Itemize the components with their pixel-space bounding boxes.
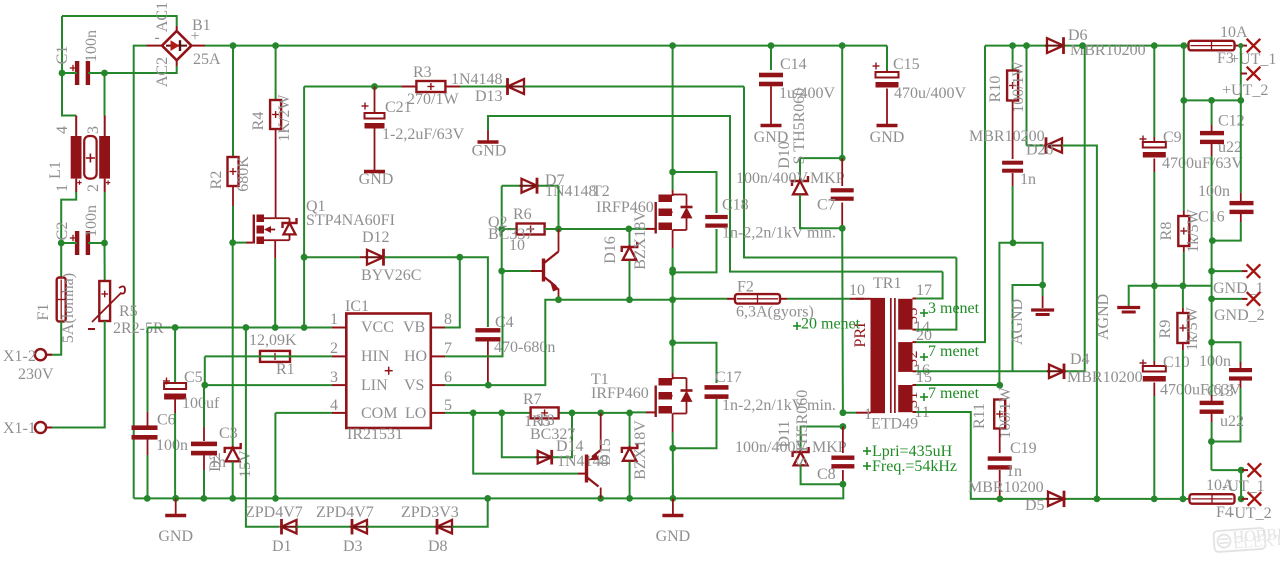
resistor R2 [232, 46, 234, 157]
svg-text:F1: F1 [35, 304, 52, 321]
svg-text:R5: R5 [119, 303, 138, 320]
diode D7 [502, 185, 520, 187]
svg-text:6: 6 [444, 369, 452, 386]
diode D5 [1048, 492, 1064, 506]
varistor R5 [104, 243, 106, 281]
svg-text:C9: C9 [1163, 129, 1182, 146]
capacitor C2 [75, 231, 79, 255]
wire C4 top [460, 257, 488, 327]
svg-text:8: 8 [444, 311, 452, 328]
svg-text:100n: 100n [83, 205, 100, 237]
label Lpri [863, 450, 871, 452]
ground GND C15 [877, 124, 898, 127]
node VCC join [301, 324, 308, 331]
svg-text:D1: D1 [272, 538, 292, 555]
node R9 rail [1180, 496, 1187, 503]
capacitor C9 [1153, 46, 1155, 137]
svg-text:HIN: HIN [361, 348, 390, 365]
svg-text:1n-2,2n/1kV min.: 1n-2,2n/1kV min. [722, 225, 836, 242]
svg-text:1: 1 [330, 311, 338, 328]
inductor L1 [71, 136, 82, 179]
diode D4 [1049, 370, 1064, 372]
wire B1 minus [147, 45, 162, 47]
svg-text:C19: C19 [1010, 440, 1037, 457]
capacitor C17 [673, 343, 717, 383]
connector GND_1 [1247, 264, 1261, 278]
label 7 menet b [920, 396, 928, 398]
node C4 vs [485, 382, 492, 389]
node snubber bot [839, 225, 846, 232]
wire HO up [501, 229, 503, 271]
svg-text:B1: B1 [192, 17, 211, 34]
zener D8 [437, 520, 452, 534]
svg-text:HO: HO [404, 348, 427, 365]
svg-text:T2: T2 [592, 183, 610, 200]
svg-text:GND: GND [359, 171, 394, 188]
svg-text:1: 1 [54, 184, 71, 192]
wire L1 pin2 down [104, 179, 106, 192]
svg-text:ETD49: ETD49 [871, 416, 918, 433]
ground GND mid [672, 498, 674, 514]
resistor R10 [1012, 46, 1014, 71]
pin 1 VCC [332, 327, 346, 329]
resistor R6 [502, 228, 517, 230]
svg-text:GND: GND [158, 528, 193, 545]
wire HIN row [205, 355, 332, 357]
resistor R1 [260, 351, 290, 362]
wire LO row [445, 412, 630, 414]
svg-text:1k/5W: 1k/5W [1184, 306, 1201, 350]
svg-text:VCC: VCC [361, 319, 394, 336]
node C13 tap [1208, 339, 1215, 346]
wire GND1 [1212, 270, 1242, 272]
svg-text:AC2: AC2 [154, 57, 171, 87]
svg-text:AC1: AC1 [154, 2, 171, 32]
node D14 left [498, 410, 505, 417]
svg-text:7 menet: 7 menet [928, 343, 980, 360]
svg-text:IC1: IC1 [345, 298, 369, 315]
svg-text:1N4148: 1N4148 [451, 71, 503, 88]
connector +UT_1 [1247, 39, 1261, 53]
wire -UT1 link [1240, 470, 1242, 499]
bridge rectifier B1 [162, 31, 191, 60]
node chain rail [484, 495, 491, 502]
wire LIN row [205, 384, 332, 386]
svg-text:C8: C8 [817, 466, 836, 483]
svg-text:100n/400V: 100n/400V [736, 170, 808, 187]
wire snubber down [841, 228, 844, 412]
svg-text:10: 10 [849, 282, 865, 299]
svg-text:D5: D5 [1025, 497, 1045, 514]
node C16 join [1209, 237, 1216, 244]
wire T2 source [672, 248, 674, 270]
svg-text:25A: 25A [193, 51, 221, 68]
svg-text:C6: C6 [157, 412, 176, 429]
wire pin17 [913, 298, 917, 300]
node R4 top [272, 42, 279, 49]
wire -UT1 row [1211, 469, 1242, 471]
svg-text:17: 17 [916, 282, 932, 299]
svg-text:ZPD4V7: ZPD4V7 [245, 504, 303, 521]
fuse F3 [1189, 41, 1235, 51]
svg-text:230V: 230V [18, 366, 54, 383]
svg-text:R10: R10 [987, 76, 1004, 103]
node T3 base tap [470, 410, 477, 417]
capacitor C16 [1240, 100, 1242, 193]
svg-text:7: 7 [444, 340, 452, 357]
wire aux return [744, 87, 956, 258]
svg-text:100n: 100n [83, 30, 100, 62]
capacitor C7 [841, 158, 843, 186]
svg-text:100uf: 100uf [182, 395, 220, 412]
node C9 bot [1151, 282, 1158, 289]
zener D11 [801, 427, 843, 452]
wire UT2 row [1183, 46, 1185, 101]
wire left AC1 branch [61, 16, 63, 73]
wire VB [445, 257, 460, 327]
wire gnd column [1211, 241, 1213, 343]
wire zener chain drop [246, 498, 279, 526]
node UT2 branch [1180, 42, 1187, 49]
diode D20 [1026, 46, 1028, 146]
wire VCC row [147, 328, 149, 412]
node C19 rail [997, 496, 1004, 503]
resistor R7 [531, 407, 559, 418]
svg-text:D8: D8 [428, 538, 448, 555]
wire gate stub Q1 [233, 242, 246, 244]
svg-text:BYV26C: BYV26C [361, 267, 421, 284]
svg-text:D4: D4 [1070, 351, 1090, 368]
resistor R4 [275, 46, 277, 100]
wire pin11 [913, 411, 917, 413]
svg-text:X1-2: X1-2 [3, 348, 36, 365]
wire agnd1 left [1013, 285, 1043, 371]
node agnd1 join [1039, 282, 1046, 289]
wire T1 drain stub [672, 343, 674, 373]
svg-text:-: - [154, 29, 159, 46]
pin 6 VS [431, 384, 445, 386]
capacitor C8 [842, 427, 844, 454]
node C1 right junction [101, 70, 108, 77]
svg-text:C4: C4 [495, 314, 514, 331]
node pri bottom [840, 409, 847, 416]
wire T1 source rail [672, 448, 674, 498]
svg-text:C10: C10 [1163, 354, 1190, 371]
svg-text:C1: C1 [54, 46, 71, 65]
svg-text:GND_2: GND_2 [1214, 307, 1265, 324]
wire u22 out [1210, 442, 1212, 471]
node F4 out [1238, 496, 1245, 503]
ground AGND2 [1117, 306, 1140, 309]
node D6 out [1079, 42, 1086, 49]
wire C13 top [1212, 342, 1241, 365]
svg-text:R4: R4 [250, 112, 267, 131]
svg-text:100n/400V: 100n/400V [735, 439, 807, 456]
node T2 gate [625, 226, 632, 233]
svg-text:C15: C15 [893, 56, 920, 73]
node D20 branch [1023, 42, 1030, 49]
svg-text:D15: D15 [597, 438, 614, 466]
svg-text:BC327: BC327 [530, 426, 575, 443]
wire pri pin10 [856, 298, 871, 300]
node T2 drain rail [669, 42, 676, 49]
connector -UT_1 [1248, 463, 1262, 477]
zener D1 [282, 520, 297, 534]
svg-text:R11: R11 [971, 403, 988, 429]
wire to L1 pin4 [62, 73, 76, 116]
svg-text:MKP: MKP [810, 170, 845, 187]
svg-text:u22: u22 [1218, 139, 1242, 156]
wire HO to gate [559, 228, 629, 230]
svg-text:1K/2W: 1K/2W [276, 94, 293, 142]
svg-text:3 menet: 3 menet [928, 300, 980, 317]
node C2 right [101, 240, 108, 247]
svg-text:VB: VB [403, 319, 425, 336]
node C1 left junction [59, 70, 66, 77]
node T2 source2 [669, 269, 676, 276]
svg-text:R6: R6 [513, 206, 532, 223]
node D2 rail [229, 495, 236, 502]
label 7 menet a [920, 356, 928, 358]
node snubber top [839, 155, 846, 162]
svg-text:D20: D20 [1026, 142, 1054, 159]
wire pin14 [913, 329, 917, 331]
wire AC1 top loop [62, 16, 177, 26]
connector GND_2 [1247, 292, 1261, 306]
diode D12 [304, 256, 360, 258]
svg-text:1n-2,2n/1kV min.: 1n-2,2n/1kV min. [722, 397, 836, 414]
svg-text:270/1W: 270/1W [407, 91, 459, 108]
label 3 menet [920, 312, 928, 314]
wire Q1 source down [274, 240, 276, 258]
wire snub left [999, 243, 1013, 385]
svg-text:100n: 100n [1198, 183, 1230, 200]
wire D7 loop right [558, 186, 560, 229]
node UT1 join [1238, 467, 1245, 474]
zener D10 [800, 158, 842, 180]
svg-text:u22: u22 [1220, 413, 1244, 430]
node D12 junction [301, 254, 308, 261]
zener D15 [629, 413, 631, 447]
ground AGND1 [1042, 285, 1044, 296]
node gnd left [172, 495, 179, 502]
label 20 menet [793, 325, 801, 327]
node C2 left [58, 240, 65, 247]
wire D7 loop left [501, 186, 503, 229]
node R6 right [555, 226, 562, 233]
svg-text:4: 4 [330, 397, 338, 414]
node Q2 base tap [498, 268, 505, 275]
svg-text:R3: R3 [413, 64, 432, 81]
svg-text:D3: D3 [343, 538, 363, 555]
svg-text:GND: GND [754, 129, 789, 146]
pin 5 LO [431, 412, 445, 414]
diode D14 [502, 413, 536, 457]
watermark [1213, 522, 1280, 554]
node R8 bot [1180, 282, 1187, 289]
wire pin20 [913, 341, 917, 343]
svg-text:C17: C17 [715, 369, 742, 386]
node u22 bot [1208, 438, 1215, 445]
capacitor C14 [770, 46, 772, 70]
ground GND C14 [761, 124, 782, 127]
wire mid gnd row [1129, 286, 1212, 306]
svg-text:IRFP460: IRFP460 [591, 385, 649, 402]
node T1 drain [669, 339, 676, 346]
svg-text:5A(lomha): 5A(lomha) [60, 273, 77, 343]
label Freq [863, 465, 871, 467]
svg-text:3: 3 [330, 369, 338, 386]
fuse F2 [735, 294, 780, 304]
svg-text:IR21531: IR21531 [347, 426, 403, 443]
svg-text:C18: C18 [722, 197, 749, 214]
node Q1 gate [229, 239, 236, 246]
svg-text:MBR10200: MBR10200 [1067, 369, 1143, 386]
svg-text:+UT_1: +UT_1 [1230, 51, 1276, 68]
node snubber2 top [840, 423, 847, 430]
svg-text:12,09K: 12,09K [249, 332, 297, 349]
svg-text:C2: C2 [54, 222, 71, 241]
transistor T1 [655, 386, 657, 418]
svg-text:1: 1 [864, 406, 872, 423]
wire T2 drain [672, 46, 674, 172]
node T2 drain top [669, 169, 676, 176]
wire VS down [672, 272, 674, 342]
svg-text:X1-1: X1-1 [3, 420, 36, 437]
wire HIN corner [204, 356, 206, 385]
svg-text:20 menet: 20 menet [801, 316, 861, 333]
node C21 top [371, 83, 378, 90]
node C9 top [1151, 42, 1158, 49]
wire F2 row [673, 298, 727, 300]
svg-text:1n: 1n [1020, 171, 1036, 188]
svg-text:D16: D16 [602, 236, 619, 264]
svg-text:-UT_2: -UT_2 [1229, 505, 1272, 522]
capacitor C5 [174, 328, 176, 385]
capacitor C4 [475, 328, 500, 332]
svg-text:100n: 100n [1199, 353, 1231, 370]
resistor R9 [1182, 286, 1184, 308]
capacitor C15 [886, 70, 888, 73]
ground GND left [175, 498, 177, 514]
node snubber2 bot [840, 481, 847, 488]
svg-text:LO: LO [405, 405, 426, 422]
wire snub right [1013, 243, 1043, 285]
pin 2 HIN [332, 355, 346, 357]
svg-text:AGND: AGND [1009, 299, 1026, 345]
svg-text:L1: L1 [47, 161, 64, 179]
node C7 branch top [839, 42, 846, 49]
zener D2 [232, 243, 234, 447]
node C14 top [768, 42, 775, 49]
wire R5 to X1-1 [47, 321, 105, 428]
svg-text:GND: GND [472, 143, 507, 160]
transistor T3 [473, 413, 578, 474]
node gnd mid [670, 495, 677, 502]
svg-text:AGND: AGND [1095, 294, 1112, 340]
svg-text:C16: C16 [1198, 209, 1225, 226]
wire R1 branch [245, 328, 247, 499]
svg-text:D13: D13 [475, 88, 503, 105]
svg-text:3: 3 [85, 126, 102, 134]
svg-text:C3: C3 [219, 425, 238, 442]
svg-text:1n: 1n [210, 454, 226, 471]
capacitor C21 [374, 87, 376, 113]
pin 3 LIN [332, 384, 346, 386]
capacitor Csn1 [1002, 161, 1023, 165]
svg-text:TR1: TR1 [873, 275, 901, 292]
node LIN join [201, 382, 208, 389]
wire C2 left to F1 [60, 243, 62, 277]
svg-text:7 menet: 7 menet [928, 385, 980, 402]
wire COM row [275, 412, 332, 414]
node VS emitter [555, 296, 562, 303]
svg-text:F2: F2 [737, 279, 754, 296]
node R6 left [498, 226, 505, 233]
wire sec rail [985, 45, 1047, 47]
pin 4 COM [332, 412, 346, 414]
node D20 rail [1094, 496, 1101, 503]
wire pin15 [913, 384, 917, 386]
svg-text:-UT_1: -UT_1 [1222, 478, 1265, 495]
zener D16 [629, 229, 631, 246]
svg-text:MKP: MKP [812, 439, 847, 456]
svg-text:10A: 10A [1220, 24, 1248, 41]
node T1 gate [626, 410, 633, 417]
node VS rail [669, 296, 676, 303]
svg-text:100n: 100n [156, 437, 188, 454]
svg-text:4: 4 [54, 126, 71, 134]
node D15 rail [626, 495, 633, 502]
node T2 source [669, 266, 676, 273]
wire F1 to X1-2 [47, 322, 61, 355]
connector X1-2 [35, 349, 46, 360]
node C5 top [172, 324, 179, 331]
wire T2 drain stub [672, 172, 674, 190]
node R2 top [230, 42, 237, 49]
node T1 source [669, 445, 676, 452]
svg-text:BC337: BC337 [488, 226, 533, 243]
svg-text:ZPD3V3: ZPD3V3 [401, 504, 459, 521]
svg-text:1N4148: 1N4148 [545, 183, 597, 200]
node T3 emitter tap [597, 410, 604, 417]
svg-text:R9: R9 [1157, 320, 1174, 339]
capacitor C12 [1211, 100, 1213, 125]
node C12 top [1208, 97, 1215, 104]
pin 7 HO [431, 355, 445, 357]
wire VS row [445, 300, 673, 385]
svg-text:1u/400V: 1u/400V [779, 85, 835, 102]
wire to L1 pin3 [104, 73, 106, 116]
capacitor C22 [1211, 342, 1213, 395]
svg-text:D12: D12 [362, 229, 390, 246]
wire T1 source [672, 432, 674, 448]
wire snubber top [841, 46, 843, 159]
node COM rail [272, 495, 279, 502]
capacitor C18 [673, 172, 717, 213]
node GND2 tap [1208, 296, 1215, 303]
svg-text:Freq.=54kHz: Freq.=54kHz [872, 458, 957, 475]
svg-text:C14: C14 [780, 56, 807, 73]
transistor Q2 [502, 270, 531, 272]
node R1 vcc [243, 324, 250, 331]
wire bottom rail [134, 484, 844, 498]
transistor Q1 [253, 215, 255, 244]
svg-text:R7: R7 [523, 391, 542, 408]
node C10 rail [1151, 496, 1158, 503]
wire B1 plus rail [191, 45, 206, 47]
diode D13 [508, 79, 525, 94]
